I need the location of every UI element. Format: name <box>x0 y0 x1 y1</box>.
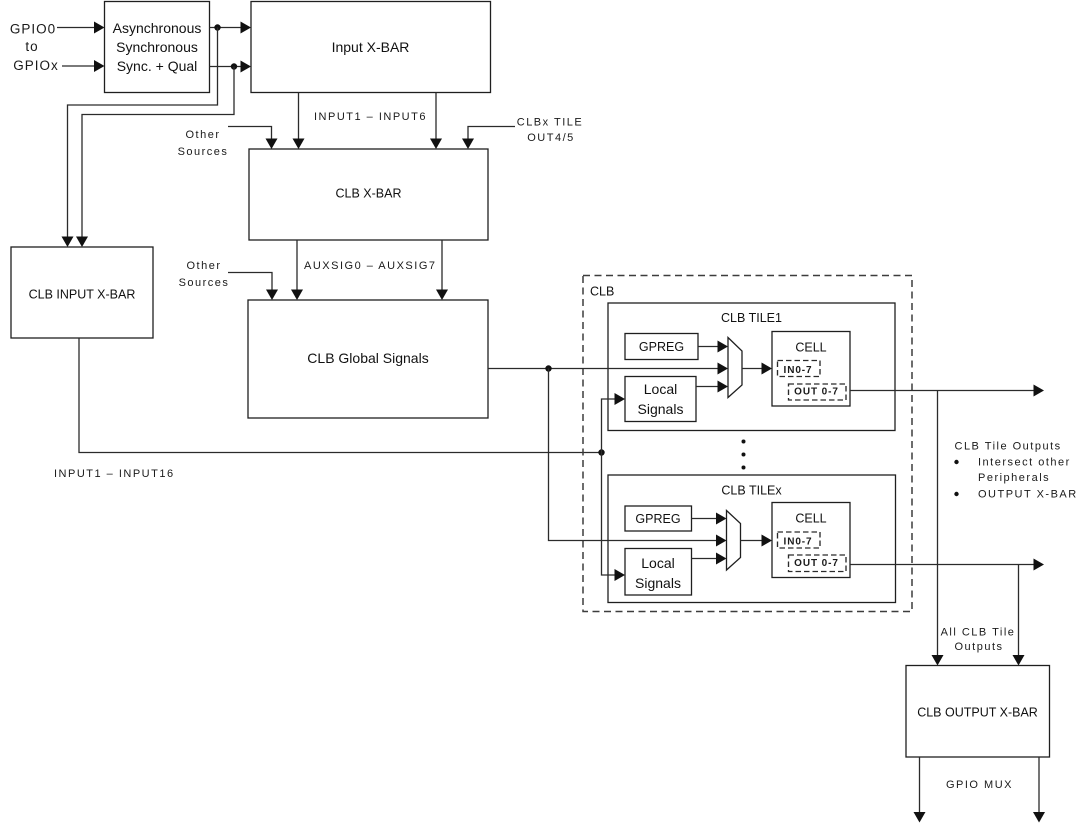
block sync qualifier <box>105 2 210 93</box>
wire gpregx to muxx <box>692 513 727 525</box>
svg-text:Sources: Sources <box>178 146 229 158</box>
label All CLB Tile Outputs <box>941 627 1016 654</box>
wire mux1 to cell1 <box>742 363 772 375</box>
svg-text:Asynchronous: Asynchronous <box>113 20 202 36</box>
block OUT 0-7 tile1 <box>789 384 847 400</box>
block GPREG tile1 <box>625 334 698 360</box>
svg-text:GPIOx: GPIOx <box>13 58 59 73</box>
wire other sources to clb global signals <box>228 273 278 301</box>
block OUT 0-7 tilex <box>789 555 847 572</box>
svg-text:CLB INPUT X-BAR: CLB INPUT X-BAR <box>29 288 136 302</box>
svg-text:CLB Global Signals: CLB Global Signals <box>307 350 428 366</box>
svg-text:GPREG: GPREG <box>635 512 680 526</box>
svg-text:CLB Tile Outputs: CLB Tile Outputs <box>955 441 1062 453</box>
svg-text:GPIO MUX: GPIO MUX <box>946 779 1013 791</box>
block CLB TILEx <box>608 475 896 603</box>
wire output x-bar down 2 <box>1033 757 1045 823</box>
wire cellx output <box>850 559 1044 571</box>
svg-text:CLB TILEx: CLB TILEx <box>721 484 782 498</box>
wire junction down to tilex local signals <box>602 453 626 582</box>
block Local Signals tile1 <box>625 377 696 422</box>
svg-text:Synchronous: Synchronous <box>116 39 198 55</box>
wire input x-bar drop 1 <box>293 93 305 150</box>
svg-text:CLB X-BAR: CLB X-BAR <box>336 187 402 201</box>
wire gpreg1 to mux1 <box>698 341 728 353</box>
svg-text:Input X-BAR: Input X-BAR <box>332 39 410 55</box>
svg-text:Outputs: Outputs <box>954 641 1003 653</box>
svg-text:IN0-7: IN0-7 <box>784 537 813 548</box>
svg-text:Signals: Signals <box>638 401 684 417</box>
svg-text:IN0-7: IN0-7 <box>784 365 813 376</box>
svg-text:All CLB Tile: All CLB Tile <box>941 627 1016 639</box>
mux tilex <box>727 511 741 571</box>
svg-text:Other: Other <box>186 260 221 272</box>
svg-text:CELL: CELL <box>795 341 826 355</box>
svg-text:Other: Other <box>185 129 220 141</box>
block CLB OUTPUT X-BAR <box>906 666 1050 758</box>
svg-text:CLBx TILE: CLBx TILE <box>517 117 584 129</box>
svg-text:Intersect other: Intersect other <box>978 457 1071 469</box>
svg-text:OUT4/5: OUT4/5 <box>527 132 575 144</box>
svg-text:Local: Local <box>644 381 677 397</box>
wire other sources to clb x-bar <box>228 127 278 150</box>
svg-text:AUXSIG0 – AUXSIG7: AUXSIG0 – AUXSIG7 <box>304 260 437 272</box>
label CLBx TILE OUT4/5 <box>517 117 584 145</box>
block CLB TILE1 <box>608 303 895 431</box>
wire junction up to tile1 local signals <box>602 393 626 453</box>
label GPIO0 to GPIOx <box>10 22 59 74</box>
wire upper tap to clb input x-bar <box>62 28 218 248</box>
wire sync to input x-bar upper <box>210 22 252 34</box>
wire GPIO0 input arrow <box>57 22 105 34</box>
wire muxx to cellx <box>741 535 773 547</box>
block IN0-7 tile1 <box>778 361 821 377</box>
wire output x-bar down 1 <box>914 757 926 823</box>
label CLB Tile Outputs bullets <box>954 441 1077 501</box>
wire local signalsx to muxx <box>692 553 727 565</box>
wire global signals tap to tilex mux <box>549 369 727 547</box>
block CELL tile1 <box>772 332 850 407</box>
block CLB dashed container <box>583 276 912 612</box>
wire GPIOx input arrow <box>62 60 105 72</box>
svg-text:Peripherals: Peripherals <box>978 472 1050 484</box>
wire cell1 output down to output x-bar <box>932 391 944 666</box>
block IN0-7 tilex <box>778 532 821 548</box>
svg-text:Sources: Sources <box>179 277 230 289</box>
label Other Sources lower <box>179 260 230 289</box>
label Other Sources top <box>178 129 229 158</box>
wire clb x-bar drop 2 <box>436 240 448 300</box>
svg-text:Signals: Signals <box>635 575 681 591</box>
svg-text:CELL: CELL <box>795 512 826 526</box>
svg-text:GPREG: GPREG <box>639 340 684 354</box>
block Input X-BAR <box>251 2 491 93</box>
block CELL tilex <box>772 503 850 578</box>
wire sync to input x-bar lower <box>210 61 252 73</box>
block CLB X-BAR <box>249 149 488 240</box>
svg-text:CLB TILE1: CLB TILE1 <box>721 311 782 325</box>
svg-text:CLB: CLB <box>590 285 614 299</box>
svg-text:OUT 0-7: OUT 0-7 <box>794 558 839 569</box>
svg-text:OUT 0-7: OUT 0-7 <box>794 387 839 398</box>
block CLB INPUT X-BAR <box>11 247 153 338</box>
wire input x-bar drop 2 <box>430 93 442 150</box>
wire cell1 output <box>850 385 1044 397</box>
wire global signals to tile1 mux <box>488 363 728 375</box>
svg-text:Local: Local <box>641 555 674 571</box>
ellipsis between tiles <box>742 440 746 470</box>
wire clb x-bar drop 1 <box>291 240 303 300</box>
block GPREG tilex <box>625 506 692 531</box>
svg-text:GPIO0: GPIO0 <box>10 22 56 37</box>
wire clbx tile out to clb x-bar <box>462 127 515 150</box>
mux tile1 <box>728 338 742 398</box>
wire lower tap to clb input x-bar <box>76 67 234 248</box>
svg-text:Sync. + Qual: Sync. + Qual <box>117 58 198 74</box>
wire local signals1 to mux1 <box>696 381 728 393</box>
wire cellx output down to output x-bar <box>1013 565 1025 666</box>
svg-text:OUTPUT X-BAR: OUTPUT X-BAR <box>978 489 1078 501</box>
wire clb input x-bar to local signals junction <box>79 338 605 456</box>
svg-text:INPUT1 – INPUT16: INPUT1 – INPUT16 <box>54 468 175 480</box>
svg-text:INPUT1 – INPUT6: INPUT1 – INPUT6 <box>314 111 427 123</box>
svg-text:CLB OUTPUT X-BAR: CLB OUTPUT X-BAR <box>917 706 1038 720</box>
block CLB Global Signals <box>248 300 488 418</box>
svg-text:to: to <box>25 39 38 54</box>
block Local Signals tilex <box>625 549 692 596</box>
